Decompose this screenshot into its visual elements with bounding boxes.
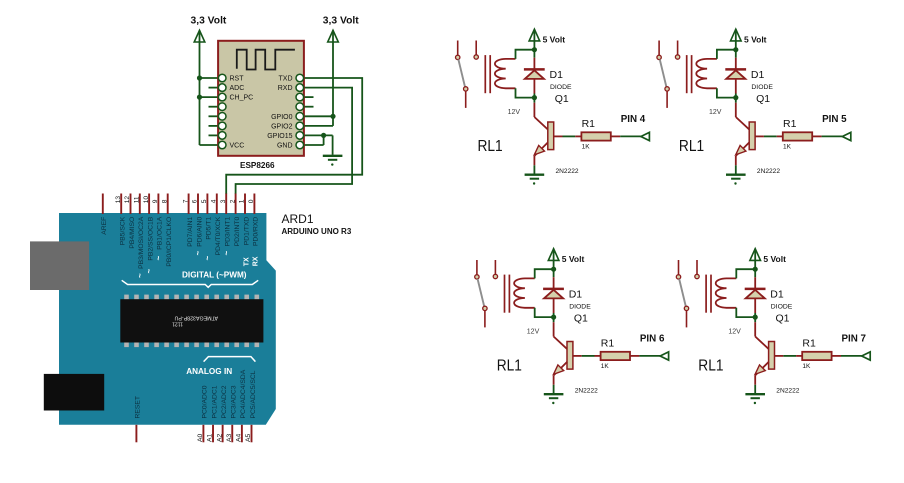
svg-text:PD4/T0/XCK: PD4/T0/XCK <box>215 216 222 255</box>
svg-text:1121: 1121 <box>172 320 183 326</box>
svg-text:~: ~ <box>154 256 163 261</box>
svg-text:A0: A0 <box>197 433 204 442</box>
svg-text:PD6/AIN0: PD6/AIN0 <box>196 216 203 246</box>
svg-text:PIN 4: PIN 4 <box>621 114 646 125</box>
svg-text:ARD1: ARD1 <box>282 212 314 226</box>
svg-text:PD5/T1: PD5/T1 <box>206 216 213 239</box>
svg-text:~: ~ <box>203 256 212 261</box>
svg-text:PC4/ADC4/SDA: PC4/ADC4/SDA <box>240 369 247 418</box>
svg-text:RST: RST <box>230 76 245 83</box>
svg-text:2: 2 <box>229 199 236 203</box>
svg-text:GPIO15: GPIO15 <box>267 133 292 140</box>
svg-text:PC2/ADC2: PC2/ADC2 <box>221 385 228 418</box>
svg-text:RESET: RESET <box>135 396 142 419</box>
svg-text:0: 0 <box>248 199 255 203</box>
svg-text:GPIO0: GPIO0 <box>271 114 293 121</box>
svg-text:PB1/OC1A: PB1/OC1A <box>157 216 164 250</box>
svg-text:A3: A3 <box>226 433 233 442</box>
svg-text:8: 8 <box>161 199 168 203</box>
svg-text:RX: RX <box>253 256 260 266</box>
svg-text:6: 6 <box>192 199 199 203</box>
svg-text:4: 4 <box>211 199 218 203</box>
svg-text:11: 11 <box>134 196 141 203</box>
svg-text:9: 9 <box>152 199 159 203</box>
svg-text:PIN 7: PIN 7 <box>842 334 867 345</box>
svg-text:RXD: RXD <box>278 85 293 92</box>
svg-text:AREF: AREF <box>101 217 108 235</box>
svg-text:A2: A2 <box>216 433 223 442</box>
svg-text:CH_PC: CH_PC <box>230 95 254 102</box>
svg-text:TXD: TXD <box>279 76 293 83</box>
svg-text:~: ~ <box>222 251 231 256</box>
svg-text:ANALOG IN: ANALOG IN <box>186 367 232 376</box>
svg-text:PC1/ADC1: PC1/ADC1 <box>211 385 218 418</box>
svg-text:PIN 5: PIN 5 <box>822 114 847 125</box>
svg-text:7: 7 <box>182 199 189 203</box>
svg-text:GND: GND <box>277 143 293 150</box>
svg-text:3,3 Volt: 3,3 Volt <box>191 15 227 26</box>
svg-text:PB0/ICP1/CLKO: PB0/ICP1/CLKO <box>166 217 173 267</box>
svg-text:PD2/INT0: PD2/INT0 <box>234 216 241 246</box>
svg-text:12: 12 <box>124 196 131 204</box>
svg-text:PD7/AIN1: PD7/AIN1 <box>187 216 194 246</box>
svg-text:A4: A4 <box>236 433 243 442</box>
svg-text:PB5/SCK: PB5/SCK <box>120 216 127 245</box>
svg-text:~: ~ <box>135 273 144 278</box>
svg-text:PD3/INT1: PD3/INT1 <box>225 216 232 246</box>
svg-text:3,3 Volt: 3,3 Volt <box>323 15 359 26</box>
svg-text:PC5/ADC5/SCL: PC5/ADC5/SCL <box>250 370 257 418</box>
svg-text:PB4/MISO: PB4/MISO <box>129 217 136 249</box>
svg-text:PD0/RXD: PD0/RXD <box>253 217 260 246</box>
svg-text:PIN 6: PIN 6 <box>640 334 665 345</box>
svg-text:PC0/ADC0: PC0/ADC0 <box>202 385 209 418</box>
svg-text:A1: A1 <box>207 433 214 442</box>
svg-text:~: ~ <box>145 269 154 274</box>
svg-text:PD1/TXD: PD1/TXD <box>243 217 250 246</box>
svg-text:PC3/ADC3: PC3/ADC3 <box>231 385 238 418</box>
svg-text:10: 10 <box>143 196 150 204</box>
svg-text:ARDUINO UNO R3: ARDUINO UNO R3 <box>282 227 352 236</box>
svg-text:ATMEGA328P-PU: ATMEGA328P-PU <box>174 315 218 321</box>
svg-text:5: 5 <box>201 199 208 203</box>
svg-text:ADC: ADC <box>230 85 245 92</box>
svg-text:TX: TX <box>244 257 251 266</box>
svg-text:GPIO2: GPIO2 <box>271 123 293 130</box>
svg-text:13: 13 <box>115 196 122 204</box>
svg-text:PB2/SS/OC1B: PB2/SS/OC1B <box>147 216 154 260</box>
svg-text:1: 1 <box>239 199 246 203</box>
svg-text:VCC: VCC <box>230 143 245 150</box>
svg-text:~: ~ <box>194 251 203 256</box>
svg-text:DIGITAL (~PWM): DIGITAL (~PWM) <box>182 271 247 280</box>
svg-text:3: 3 <box>220 199 227 203</box>
svg-text:PB3/MOSI/OC2A: PB3/MOSI/OC2A <box>138 216 145 269</box>
svg-text:A5: A5 <box>245 433 252 442</box>
svg-text:ESP8266: ESP8266 <box>240 161 275 170</box>
